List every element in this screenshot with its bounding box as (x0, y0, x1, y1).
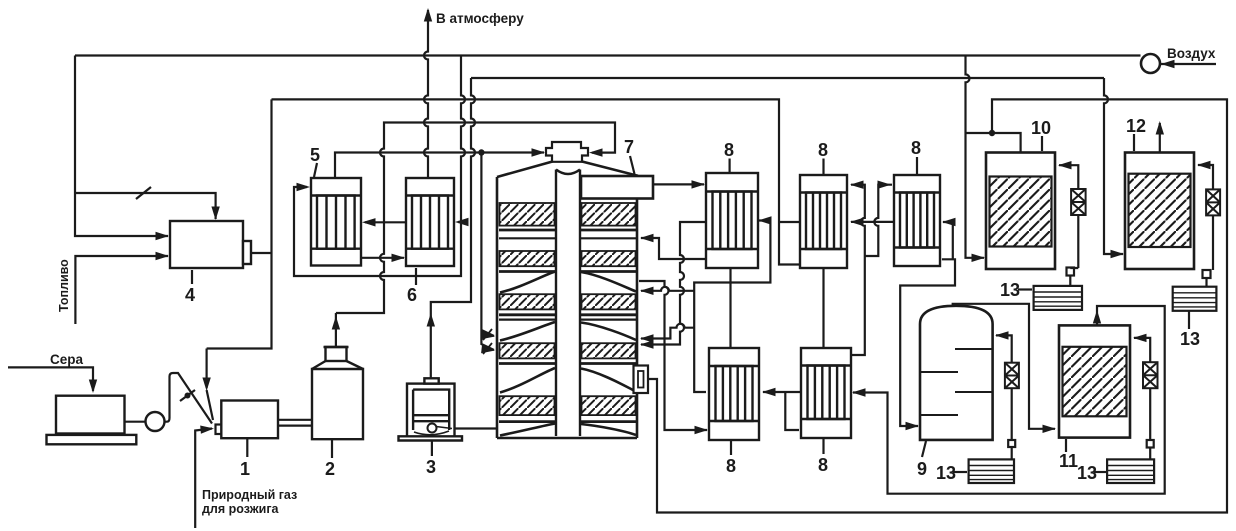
catalyst bed 3 (500, 294, 636, 309)
svg-text:8: 8 (724, 140, 734, 160)
tower central shaft (556, 170, 580, 437)
wire: tank 9 dome outlet over to absorber 11 bottom (953, 304, 1055, 429)
wire: SO2 gas valves into tower left wall (481, 153, 494, 351)
deflector arcs between beds 4 and 5 (500, 368, 636, 393)
tank 13 of unit 9 (969, 459, 1014, 483)
svg-text:Топливо: Топливо (57, 259, 71, 312)
arrow: into exchanger 8a right mid (758, 216, 772, 224)
svg-text:8: 8 (726, 456, 736, 476)
svg-text:13: 13 (936, 463, 956, 483)
absorber 12 vent to air (1159, 123, 1161, 153)
absorber 12 (final absorber) (1125, 153, 1194, 270)
wire: heater 4 outlet to vertical riser (251, 252, 272, 254)
arrow: air into blower (1161, 60, 1175, 68)
arrow: into absorber 11 bottom left (1043, 425, 1057, 433)
wire: branch up into exchanger 8c right mid (943, 222, 953, 259)
wire: furnace 1 to tank 2, double duct (278, 420, 314, 426)
wire: upper 8b bottom to lower 8e top (822, 268, 824, 348)
svg-text:9: 9 (917, 459, 927, 479)
wire: hot air down into burner (207, 349, 213, 421)
arrow: sulfur into melter (89, 380, 97, 394)
svg-text:8: 8 (911, 138, 921, 158)
arrow: air into heater 4 (156, 232, 170, 240)
wire: wrap line from 8d into exchanger 8a right mid and tower at y=290.8 (641, 221, 770, 393)
cooler 9 piping (996, 335, 1012, 440)
wire: blower air down to absorber 10 (966, 56, 985, 258)
arrow: cooler acid into absorber 10 top (1058, 161, 1072, 169)
tank 2 (waste heat boiler) (312, 347, 363, 439)
wire: air drop to heater 4 (75, 56, 168, 237)
arrow: cooler acid into absorber 11 top (1133, 334, 1147, 342)
catalyst bed 5 (500, 396, 636, 415)
arrow: absorber 11 gas outlet up (1093, 310, 1101, 324)
valve on branch line (136, 187, 151, 199)
svg-text:4: 4 (185, 285, 195, 305)
arrow: return into tower y=290.8 (640, 287, 654, 295)
arrow: air into exchanger 5 left (297, 183, 311, 191)
wire: exchanger 8c mid-left to exchanger 8b mid-right (851, 221, 894, 223)
svg-text:13: 13 (1077, 463, 1097, 483)
damper on tower right wall (634, 366, 649, 394)
svg-text:12: 12 (1126, 116, 1146, 136)
wire: tower damper outlet to bottom loop, to right border, up to y=99 (648, 99, 1227, 512)
wire: cross line y=133 into absorber 10 top (966, 133, 1021, 153)
svg-text:3: 3 (426, 457, 436, 477)
heat exchanger 5 (311, 178, 361, 266)
arrow: into lower exchanger 8e right mid (852, 388, 866, 396)
heat exchanger 8c (upper right) (894, 175, 940, 266)
wire: exchanger 5 bottom to exchanger 6 bottom (361, 257, 404, 259)
wire: lower 8e mid to lower 8d mid (763, 391, 801, 393)
arrow: into exchanger 8c right mid (942, 218, 956, 226)
wire: pump to burner, sulfur feed (165, 373, 213, 424)
wire: furnace 3 riser with hops (431, 78, 475, 380)
wire: upper 8a bottom to lower 8d top (729, 268, 731, 348)
absorber 11 (1059, 325, 1130, 437)
arrow: return into tower y=338.5 (640, 334, 654, 342)
top outlet header (581, 176, 653, 199)
arrow: into mixer left (532, 148, 546, 156)
wire: branch into exchanger 6 right side (458, 221, 461, 223)
wire: fuel line into heater 4 (75, 256, 168, 324)
tower label leader (630, 156, 635, 174)
cooler of absorber 12 (1206, 189, 1220, 215)
blower (air fan) (1141, 54, 1160, 73)
heat exchanger 8d (lower left) (709, 348, 759, 440)
arrow: tank 2 outlet up (332, 316, 340, 330)
burner port on furnace 1 (216, 425, 223, 435)
svg-text:5: 5 (310, 145, 320, 165)
arrow: cooler acid into absorber 12 top (1197, 161, 1211, 169)
arrow: tower inlet stubs (481, 331, 495, 339)
heat exchanger 8e (lower right) (801, 348, 851, 438)
cooler of absorber 10 (1071, 189, 1086, 215)
wire: line y=327.7 over to corner, down into tower at y=338.5 (641, 324, 694, 339)
sulfur pump (146, 412, 165, 431)
arrow: hot air down to burner (202, 378, 210, 392)
tray line (499, 237, 636, 239)
arrow: cooler return into tank 9 (995, 331, 1009, 339)
arrow: into absorber 12 bottom left (1111, 250, 1125, 258)
tank 13 of absorber 11 (1107, 459, 1154, 483)
junction at y=133 (989, 130, 995, 136)
svg-text:13: 13 (1000, 280, 1020, 300)
catalyst bed 1 (500, 203, 636, 226)
roof (497, 162, 638, 178)
deflector arcs between beds 2 and 3 (500, 272, 636, 293)
heat exchanger 8b (upper middle) (800, 175, 847, 268)
wire: natural gas line for ignition (195, 429, 212, 529)
wire: line y=78 from furnace 3 riser to absorber 12 bottom (471, 78, 1123, 254)
wire: lower 8e top outlet up to exchangers 8b/8c (851, 185, 892, 355)
arrow: into exchanger 5 right mid (362, 218, 376, 226)
svg-text:8: 8 (818, 140, 828, 160)
heat exchanger 8a (upper left) (706, 173, 758, 268)
arrow: into exchanger 6 right mid (455, 218, 469, 226)
furnace 1 (sulfur burning furnace) (221, 401, 278, 439)
svg-text:8: 8 (818, 455, 828, 475)
wire: exchanger 8a mid-left down and into tower at y=344.5 (641, 222, 706, 345)
tower 7 (contact apparatus / converter) (497, 162, 653, 439)
junction on line to mixer (478, 149, 484, 155)
arrow: return into tower y=344.5 (640, 340, 654, 348)
wire: melter to pump (125, 421, 146, 423)
arrow: into absorber 10 bottom left (972, 254, 986, 262)
valve slashes on tower inlet stubs (483, 329, 492, 354)
catalyst bed 2 (500, 251, 636, 266)
svg-text:11: 11 (1059, 451, 1078, 471)
deflector arcs below bed 5 (500, 424, 636, 436)
wire: exchanger 6 mid to exchanger 5 mid (365, 221, 406, 223)
tank 9 (acid collector) (920, 306, 993, 440)
wire: valved branch into heater 4 top (75, 193, 216, 219)
furnace 3 (auxiliary start-up furnace) (399, 378, 463, 440)
arrow: into mixer right (589, 148, 603, 156)
arrow: natural gas into burner (200, 426, 214, 434)
arrow: tower outlet into exchanger 8a (692, 180, 706, 188)
arrow: into lower exchanger 8d bottom (695, 426, 709, 434)
svg-text:для розжига: для розжига (202, 502, 280, 516)
wire: riser from heater 4, up to hot line y=99 and down to burner (207, 99, 272, 348)
arrow: fuel into heater 4 (156, 252, 170, 260)
air heater 4 (170, 221, 251, 268)
wire: tank 2 outlet up and over to tower mixer right side (336, 123, 615, 348)
tank 13 of absorber 10 (1034, 286, 1082, 310)
catalyst bed 4 (500, 343, 636, 358)
arrow: into lower exchanger 8d right mid (762, 388, 776, 396)
arrow: into exchanger 6 bottom left (392, 254, 406, 262)
cooler of tank 9 (1005, 363, 1019, 389)
deflector arcs between beds 3 and 4 (500, 322, 636, 341)
arrow: into heater 4 top (211, 207, 219, 221)
wire: stack pipe to atmosphere (from heat exchanger 6 top), with hops (424, 10, 428, 178)
arrow: return into tower y=238 (640, 234, 654, 242)
wire: tower side outlet y=281 down into lower exchanger 8d bottom (639, 281, 707, 430)
wire: exchanger 8a bottom-left return into tower (641, 238, 706, 259)
wire: absorber 11 top outlet loop down to lower exchanger 8e (853, 306, 1165, 494)
arrow: into tank 9 left (906, 422, 920, 430)
cooler of absorber 11 (1143, 362, 1158, 388)
svg-text:6: 6 (407, 285, 417, 305)
arrow: into exchanger 8b mid right (850, 218, 864, 226)
svg-text:13: 13 (1180, 329, 1200, 349)
absorber 10 (oleum absorber) (986, 153, 1055, 270)
wire: exchanger 5 top outlet to tower mixer (335, 153, 544, 179)
wire: furnace 3 outlet to tower bottom (455, 427, 497, 429)
sulfur melter (47, 396, 137, 445)
wire: tower top header outlet to exchanger 8a (653, 183, 704, 185)
wire: upper 8c bottom-right Z-route down into tank 9 (900, 259, 955, 426)
wire: cold air branch down to exchangers 5/6 (294, 56, 465, 277)
svg-text:2: 2 (325, 459, 335, 479)
arrow: furnace 3 outlet up (427, 313, 435, 327)
wire: hot air line y=99 down and into exchanger 8b left mid and bottom (272, 99, 801, 264)
svg-text:Воздух: Воздух (1167, 46, 1216, 61)
tank 13 of absorber 12 (1173, 287, 1217, 311)
svg-text:Сера: Сера (50, 352, 84, 367)
svg-text:1: 1 (240, 459, 250, 479)
wire: branch down into exchanger 8e bottom (785, 392, 799, 430)
valve with dot on sulfur feed (180, 390, 195, 401)
tower shell (497, 177, 637, 438)
svg-text:10: 10 (1031, 118, 1051, 138)
arrow: absorber 12 vent up (1156, 121, 1164, 135)
arrow: into exchanger 8b top right (850, 181, 864, 189)
svg-text:Природный газ: Природный газ (202, 488, 297, 502)
arrow: to atmosphere, up (424, 8, 432, 22)
svg-text:7: 7 (624, 137, 634, 157)
heat exchanger 6 (406, 178, 454, 266)
wire: sulfur line into melter (8, 367, 93, 391)
arrow: into exchanger 8c top left (878, 181, 892, 189)
wire: air main line from blower to left side (75, 54, 1141, 56)
mixer on tower top (546, 142, 588, 162)
svg-text:В атмосферу: В атмосферу (436, 11, 524, 26)
